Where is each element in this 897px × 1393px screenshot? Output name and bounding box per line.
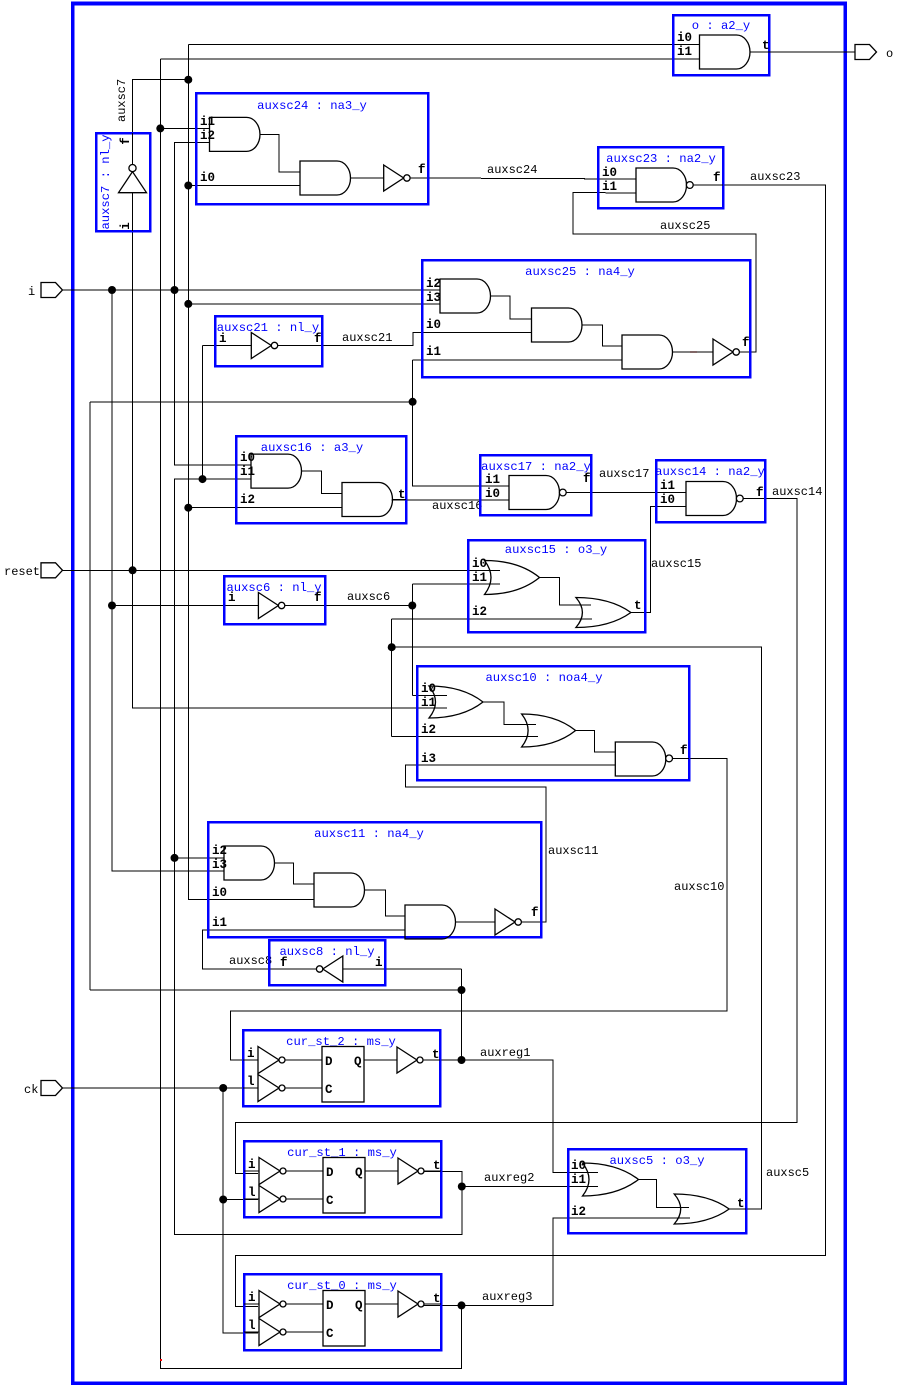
internal wire [365, 890, 406, 916]
or3 box auxsc5 : o3_y [568, 1149, 746, 1233]
svg-text:auxsc24 : na3_y: auxsc24 : na3_y [257, 99, 367, 113]
svg-text:auxsc5 : o3_y: auxsc5 : o3_y [609, 1154, 704, 1168]
svg-text:i3: i3 [212, 858, 227, 872]
svg-text:auxsc8: auxsc8 [229, 954, 272, 968]
svg-text:i1: i1 [571, 1173, 586, 1187]
svg-text:auxsc23 : na2_y: auxsc23 : na2_y [606, 152, 716, 166]
svg-text:i2: i2 [240, 493, 255, 507]
svg-text:auxsc14: auxsc14 [772, 485, 822, 499]
output wire t [750, 51, 769, 53]
NAND output gate [615, 742, 666, 776]
svg-text:auxsc10: auxsc10 [674, 880, 724, 894]
svg-text:i2: i2 [421, 723, 436, 737]
AND gate stage 1 [251, 454, 302, 488]
nand3 box auxsc24 : na3_y [196, 93, 428, 204]
svg-text:f: f [583, 472, 591, 486]
svg-text:i0: i0 [212, 886, 227, 900]
svg-text:i: i [375, 956, 383, 970]
input port reset [41, 563, 63, 578]
svg-text:i1: i1 [240, 465, 255, 479]
or-and-invert box auxsc10 : noa4_y [417, 666, 689, 780]
svg-text:i0: i0 [677, 31, 692, 45]
inverter box auxsc6 : nl_y [224, 576, 325, 624]
wire net auxsc7 from inverter output f [133, 80, 189, 133]
svg-text:o: o [886, 47, 893, 61]
latch D/Q body [322, 1047, 364, 1103]
wire net auxreg1 from cur_st_2.t to auxsc8.i, auxsc25.i1, auxsc17.i1, auxsc5.i0 [423, 1060, 598, 1173]
svg-text:f: f [680, 744, 688, 758]
svg-text:D: D [326, 1166, 334, 1180]
internal wire [491, 296, 532, 319]
wire net auxsc24 from na3_y f to auxsc23.i0 [410, 178, 636, 179]
red artifact pixel bottom left [160, 1359, 162, 1361]
OR gate stage 2 [522, 714, 576, 747]
inverter box auxsc7 : nl_y (vertical) [96, 133, 150, 231]
svg-text:i1: i1 [485, 473, 500, 487]
svg-text:C: C [326, 1194, 334, 1208]
svg-text:auxsc16 : a3_y: auxsc16 : a3_y [261, 441, 363, 455]
nand4 box auxsc25 : na4_y [422, 260, 750, 377]
svg-text:auxsc15 : o3_y: auxsc15 : o3_y [505, 543, 607, 557]
svg-text:i2: i2 [200, 129, 215, 143]
AND gate stage 2 [342, 483, 393, 517]
wire net auxsc23 from na2_y f down right side to cur_st_0.i [236, 185, 826, 1306]
svg-text:i: i [28, 285, 35, 299]
wire net auxsc6 from inverter f to auxsc15.i1 and auxsc10.i0 [285, 605, 412, 607]
svg-text:i1: i1 [677, 45, 692, 59]
output wire t [729, 1208, 746, 1210]
svg-text:Q: Q [355, 1299, 363, 1313]
clock inverter 2 [259, 1319, 280, 1346]
svg-text:i2: i2 [472, 605, 487, 619]
wire net i leg x=112 to auxsc6.i and auxsc11.i3 [112, 290, 224, 871]
wire net i leg x=174.5 to auxsc24.i2 and auxsc16.i0 [175, 142, 210, 290]
OR gate stage 1 [429, 686, 483, 718]
wire net auxreg2 from cur_st_1.t to auxsc5.i1, auxsc11.i2, auxsc16.i1, auxsc21.i [175, 479, 462, 1234]
svg-text:i3: i3 [426, 291, 441, 305]
output inverter [397, 1047, 417, 1073]
svg-text:f: f [531, 906, 539, 920]
junction dots on net auxsc7 [184, 76, 192, 84]
flip-flop box cur_st_1 : ms_y [244, 1141, 441, 1217]
svg-text:auxreg3: auxreg3 [482, 1290, 532, 1304]
svg-text:i1: i1 [472, 571, 487, 585]
svg-text:auxsc6: auxsc6 [347, 590, 390, 604]
wire net auxreg3 vertical bus x=160 (a2_y.i1, auxsc24.i1, bottom return) [160, 59, 461, 1368]
clock inverter 1 [259, 1158, 280, 1185]
red artifact segment near auxsc25 output [690, 351, 697, 353]
AND gate stage 2 [314, 873, 365, 907]
wire net auxsc7 vertical bus x=188 feeding a2_y.i0, auxsc24.i0, auxsc25.i3, auxsc16.i2, auxsc11.i0 [188, 45, 314, 900]
svg-text:auxsc17: auxsc17 [599, 467, 649, 481]
internal wire [456, 921, 496, 923]
svg-text:f: f [280, 956, 288, 970]
svg-text:i1: i1 [602, 180, 617, 194]
svg-text:i0: i0 [240, 451, 255, 465]
OR gate stage 2 [576, 598, 631, 628]
wire net auxsc14 from na2_y f down to cur_st_1.i [236, 499, 798, 1174]
output inverter [398, 1291, 418, 1317]
OR gate stage 2 [674, 1194, 729, 1224]
svg-text:i0: i0 [602, 166, 617, 180]
svg-text:i0: i0 [485, 487, 500, 501]
clock inverter 2 [259, 1186, 280, 1213]
nand4 box auxsc11 : na4_y [208, 822, 541, 939]
internal wire [302, 471, 343, 493]
latch D/Q body [323, 1291, 365, 1347]
inverter box auxsc8 : nl_y (mirrored) [269, 940, 385, 985]
or3 box auxsc15 : o3_y [468, 540, 645, 632]
wire net reset to auxsc15.i0, auxsc7.i, auxsc10.i1 [62, 569, 500, 571]
svg-text:l: l [248, 1186, 256, 1200]
clock inverter 1 [259, 1291, 280, 1318]
svg-text:i0: i0 [660, 493, 675, 507]
wire net auxsc8 from nl_y f to auxsc11.i1 [203, 930, 406, 969]
svg-text:C: C [326, 1327, 334, 1341]
svg-text:f: f [742, 336, 750, 350]
flip-flop box cur_st_2 : ms_y [243, 1030, 440, 1106]
AND2 gate body [700, 35, 751, 69]
svg-text:reset: reset [4, 565, 40, 579]
svg-text:l: l [247, 1075, 255, 1089]
svg-text:f: f [713, 171, 721, 185]
AND gate stage 3 [622, 335, 673, 369]
svg-text:f: f [314, 332, 322, 346]
svg-text:C: C [325, 1083, 333, 1097]
nand2 box auxsc23 : na2_y [598, 147, 723, 208]
svg-text:Q: Q [355, 1166, 363, 1180]
svg-text:t: t [737, 1197, 745, 1211]
input port ck [41, 1081, 63, 1096]
svg-text:auxsc25: auxsc25 [660, 219, 710, 233]
svg-text:i2: i2 [426, 277, 441, 291]
output inverter [398, 1158, 418, 1184]
svg-text:auxsc21: auxsc21 [342, 331, 392, 345]
svg-text:i1: i1 [660, 479, 675, 493]
wire net auxsc15 from o3_y t to auxsc14.i0 [631, 507, 686, 613]
inverter box auxsc21 : nl_y [215, 316, 322, 366]
svg-text:f: f [418, 163, 426, 177]
svg-text:i: i [119, 222, 133, 230]
svg-text:auxsc16: auxsc16 [432, 499, 482, 513]
wire net auxsc17 from na2_y f to auxsc14.i1 [565, 492, 686, 494]
svg-text:auxsc6 : nl_y: auxsc6 : nl_y [226, 581, 321, 595]
input port i [41, 283, 63, 298]
AND gate stage 1 [224, 846, 275, 880]
and3 box auxsc16 : a3_y [236, 436, 406, 523]
internal wire [483, 702, 536, 725]
internal wire [260, 134, 300, 172]
and2 U-o box o : a2_y [673, 15, 770, 75]
wire net o output [769, 51, 855, 53]
svg-text:auxsc8 : nl_y: auxsc8 : nl_y [279, 945, 374, 959]
svg-text:auxsc15: auxsc15 [651, 557, 701, 571]
svg-text:t: t [762, 39, 770, 53]
internal wires [244, 1303, 259, 1305]
svg-text:auxsc10 : noa4_y: auxsc10 : noa4_y [485, 671, 602, 685]
internal wire [582, 325, 622, 346]
svg-text:auxsc5: auxsc5 [766, 1166, 809, 1180]
svg-text:l: l [248, 1319, 256, 1333]
svg-text:i1: i1 [426, 345, 441, 359]
svg-text:f: f [756, 486, 764, 500]
svg-text:i: i [248, 1158, 256, 1172]
svg-text:auxsc25 : na4_y: auxsc25 : na4_y [525, 265, 635, 279]
wire net ck to flip-flop l pins [62, 1087, 258, 1089]
svg-text:i0: i0 [200, 171, 215, 185]
internal wire [576, 731, 616, 753]
svg-text:auxsc17 : na2_y: auxsc17 : na2_y [481, 460, 591, 474]
internal wires [243, 1059, 258, 1061]
wire net i from port to auxsc25.i2 [62, 289, 440, 291]
wire net auxsc11 from na4_y f to auxsc10.i3 [406, 765, 616, 922]
wire net auxreg3 label & cur_st_0.t to auxsc5.i2 [424, 1218, 690, 1305]
svg-text:i1: i1 [212, 916, 227, 930]
svg-text:o : a2_y: o : a2_y [692, 19, 751, 33]
output wire t [393, 499, 407, 501]
internal wire [540, 578, 592, 606]
wire net auxsc16 from a3_y t to auxsc17.i0 [392, 499, 510, 501]
clock inverter 1 [258, 1047, 279, 1074]
svg-text:i0: i0 [426, 318, 441, 332]
svg-text:auxreg2: auxreg2 [484, 1171, 534, 1185]
svg-text:i2: i2 [571, 1205, 586, 1219]
svg-text:i: i [228, 591, 236, 605]
svg-text:auxsc21 : nl_y: auxsc21 : nl_y [217, 321, 319, 335]
svg-text:auxsc23: auxsc23 [750, 170, 800, 184]
svg-text:auxsc11: auxsc11 [548, 844, 598, 858]
wire net auxsc10 from noa4_y f to cur_st_2.i [231, 758, 728, 1060]
AND gate stage 2 [300, 161, 351, 195]
junction dots on net i [108, 286, 116, 294]
junction dots on net auxreg1 [458, 986, 466, 994]
nand2 box auxsc17 : na2_y [480, 455, 591, 515]
svg-text:auxsc14 : na2_y: auxsc14 : na2_y [655, 465, 765, 479]
wire net auxsc5 from o3_y t up to auxsc15.i2 and auxsc10.i2 [392, 647, 762, 1209]
nand2 box auxsc14 : na2_y [655, 460, 765, 522]
svg-text:ck: ck [24, 1083, 38, 1097]
svg-text:t: t [398, 488, 406, 502]
svg-text:auxsc24: auxsc24 [487, 163, 537, 177]
AND gate stage 1 [210, 117, 260, 151]
svg-text:i1: i1 [421, 696, 436, 710]
AND gate stage 1 [440, 279, 490, 313]
internal wire [275, 863, 315, 884]
svg-text:auxsc11 : na4_y: auxsc11 : na4_y [314, 827, 424, 841]
internal wire [639, 1180, 690, 1208]
flip-flop box cur_st_0 : ms_y [244, 1274, 441, 1350]
output port o [855, 45, 877, 60]
svg-text:f: f [314, 591, 322, 605]
AND gate stage 2 [532, 308, 583, 342]
wire net auxsc21 from inverter f to auxsc25.i0 [278, 332, 532, 345]
svg-text:auxsc7 : nl_y: auxsc7 : nl_y [99, 134, 113, 229]
svg-text:i: i [219, 332, 227, 346]
svg-text:D: D [325, 1055, 333, 1069]
svg-text:i3: i3 [421, 752, 436, 766]
svg-text:D: D [326, 1299, 334, 1313]
svg-text:t: t [634, 599, 642, 613]
wire net auxsc25 from na4_y f to auxsc23.i1 [573, 193, 756, 353]
clock inverter 2 [258, 1075, 279, 1102]
svg-text:f: f [119, 137, 133, 145]
latch D/Q body [323, 1158, 365, 1214]
svg-text:Q: Q [354, 1055, 362, 1069]
AND gate stage 3 [405, 905, 456, 939]
internal wire [351, 177, 384, 179]
svg-text:i: i [247, 1047, 255, 1061]
svg-text:auxreg1: auxreg1 [480, 1046, 530, 1060]
svg-text:i0: i0 [472, 557, 487, 571]
svg-text:i0: i0 [571, 1159, 586, 1173]
svg-text:i: i [248, 1291, 256, 1305]
OR gate stage 1 [485, 561, 540, 595]
OR gate stage 1 [583, 1163, 639, 1196]
internal wires [244, 1170, 259, 1172]
internal wire [673, 351, 714, 353]
svg-text:auxsc7: auxsc7 [115, 79, 129, 122]
